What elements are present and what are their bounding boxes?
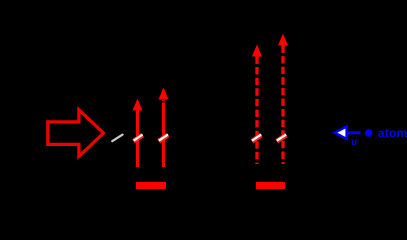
transition arrow B1 (dashed, short) [252,45,262,165]
hollow red arrow (collision energy input) [48,110,104,157]
transition arrow B2 (dashed, tall) [278,34,288,165]
svg-text:atom: atom [378,126,407,140]
transition arrow A1 (solid, short) [133,99,143,168]
right ground-state level bar [256,182,285,189]
slash on arrow B1 [252,135,261,142]
blue arrowhead (left-pointing, white fill) [335,127,347,139]
electron dot [365,129,372,136]
gray slash at arrow tip [112,135,122,142]
svg-text:υ: υ [351,137,357,148]
head-shaft gap on arrow A2 [160,101,168,103]
left ground-state level bar [136,182,166,189]
transition arrow A2 (solid, tall) [159,88,169,168]
slash on arrow B2 [277,135,286,142]
slash on arrow A2 [159,135,168,142]
blue electron arrow shaft [347,131,361,134]
slash on arrow A1 [134,135,143,142]
